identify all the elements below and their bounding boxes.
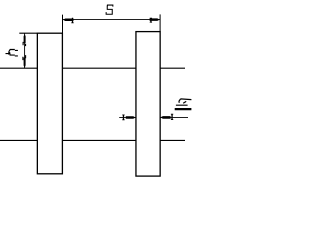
dimension h bottom arrowhead bbox=[24, 58, 26, 69]
dimension s left arrowhead bbox=[63, 19, 74, 22]
dimension b left tick bbox=[122, 115, 124, 121]
dimension h line bbox=[24, 33, 26, 68]
dimension s right arrowhead bbox=[150, 18, 160, 21]
wire upper lead right segment bbox=[160, 67, 185, 69]
dimension b right tick bbox=[171, 114, 173, 120]
dimension s line bbox=[63, 19, 161, 21]
label h1 stem (thick bottom bar) bbox=[175, 108, 192, 110]
wire lower lead right segment bbox=[160, 139, 185, 141]
dimension b right arrowhead bbox=[160, 116, 170, 119]
dimension b leader left bbox=[119, 116, 136, 118]
left plate bbox=[37, 33, 62, 174]
dimension h bottom tick bbox=[22, 55, 26, 60]
label h (rotated) bbox=[6, 50, 18, 56]
dimension h top tick bbox=[23, 42, 27, 46]
label s bbox=[106, 5, 113, 14]
dimension b left arrowhead bbox=[126, 116, 136, 119]
wire lower lead middle segment bbox=[62, 139, 136, 141]
dimension s left tick bbox=[71, 18, 73, 23]
label h1 (rotated) bbox=[176, 99, 192, 105]
right plate bbox=[136, 32, 160, 177]
wire upper lead left segment bbox=[0, 67, 37, 69]
wire top-left extension bbox=[19, 32, 37, 34]
wire upper lead middle segment bbox=[62, 67, 136, 69]
dimension b leader right bbox=[160, 116, 188, 118]
dimension s extension line left bbox=[62, 15, 64, 34]
dimension s right tick bbox=[150, 18, 152, 23]
wire lower lead left segment bbox=[0, 139, 37, 141]
dimension s extension line right bbox=[159, 14, 161, 31]
dimension h top arrowhead bbox=[24, 34, 26, 43]
